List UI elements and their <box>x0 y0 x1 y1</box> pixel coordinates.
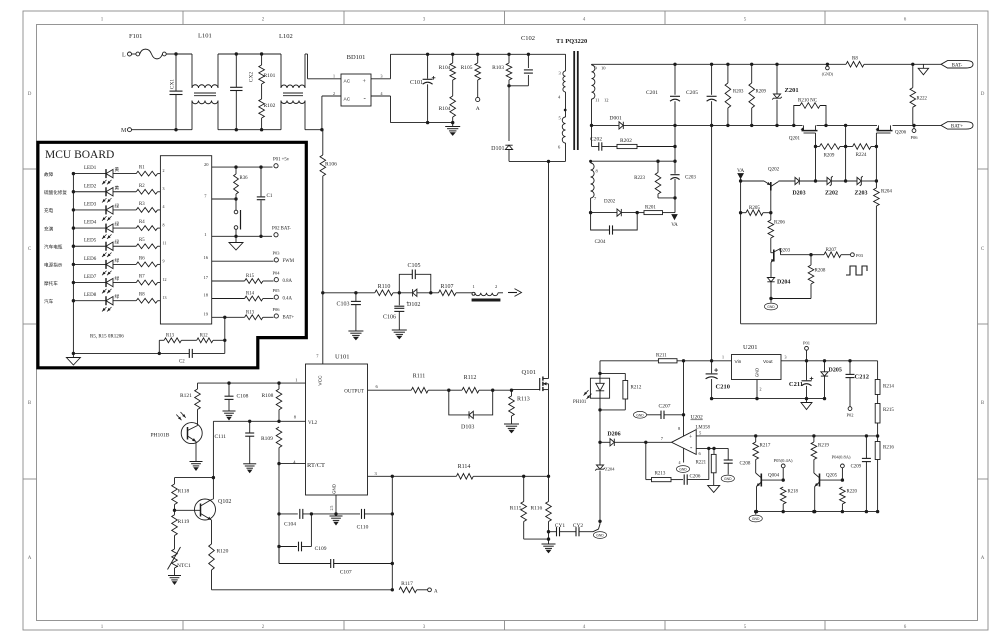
resistor R214 <box>875 361 894 404</box>
svg-text:3: 3 <box>163 186 165 191</box>
svg-text:C204: C204 <box>595 240 606 245</box>
resistor R204 <box>874 188 893 324</box>
resistor R207 <box>811 248 850 258</box>
resistor R223 <box>634 161 661 198</box>
svg-text:R217: R217 <box>760 444 771 449</box>
svg-text:D202: D202 <box>604 200 616 205</box>
diode D102 <box>407 289 439 308</box>
capacitor C210 <box>706 361 730 399</box>
resistor R208 <box>808 255 826 299</box>
resistor R4 <box>136 220 164 230</box>
svg-text:2: 2 <box>760 387 762 392</box>
resistor R205 <box>739 206 773 216</box>
svg-text:R5, R15 0R1206: R5, R15 0R1206 <box>90 335 124 340</box>
resistor R112 <box>462 375 513 393</box>
svg-text:D102: D102 <box>407 302 420 308</box>
resistor R201 <box>637 206 675 215</box>
wire DC+ top rail <box>391 53 566 56</box>
svg-text:R219: R219 <box>818 444 829 449</box>
svg-text:A: A <box>434 589 438 594</box>
ground oval comparator rail <box>749 512 762 522</box>
svg-text:P03: P03 <box>856 253 864 258</box>
svg-text:Z203: Z203 <box>854 191 867 197</box>
led LED6 <box>44 257 136 275</box>
mcu pin1 row <box>204 232 272 237</box>
svg-text:PH101B: PH101B <box>151 433 170 439</box>
transistor Q202 <box>739 168 795 213</box>
wire D204 to R208 <box>771 298 811 300</box>
svg-text:GND: GND <box>755 368 760 377</box>
svg-text:R114: R114 <box>458 464 471 470</box>
zener Z201 <box>772 64 798 125</box>
capacitor CY2 <box>560 521 601 536</box>
svg-text:汽车电瓶: 汽车电瓶 <box>44 243 63 250</box>
resistor R8 <box>136 293 166 303</box>
ground under PH101B <box>190 462 203 471</box>
svg-text:OUTPUT: OUTPUT <box>344 389 364 394</box>
inductor L102 <box>279 33 305 130</box>
svg-text:GND: GND <box>636 413 644 417</box>
svg-text:1: 1 <box>295 377 297 382</box>
wire R13 to C2 row <box>158 340 161 355</box>
ground under C106 <box>392 330 407 339</box>
resistor R118 <box>172 484 190 515</box>
resistor R113 <box>509 390 530 424</box>
svg-text:LED2: LED2 <box>84 184 97 189</box>
svg-text:A: A <box>28 556 32 561</box>
wire gate dividers verticals <box>816 125 877 188</box>
wire VL2 row <box>212 420 306 480</box>
svg-text:CY2: CY2 <box>573 523 584 529</box>
svg-text:+: + <box>406 301 409 306</box>
svg-text:摩托车: 摩托车 <box>44 280 58 287</box>
ground under U101 gnd <box>330 516 343 525</box>
svg-text:绿: 绿 <box>115 221 120 227</box>
zener Z204 <box>595 442 615 523</box>
inductor L101 <box>192 33 218 130</box>
zener Z202 <box>825 176 857 196</box>
svg-text:Vout: Vout <box>763 359 773 365</box>
svg-text:3: 3 <box>381 74 383 79</box>
svg-text:19: 19 <box>204 311 209 316</box>
svg-text:U202: U202 <box>691 415 703 421</box>
svg-text:R12: R12 <box>200 334 209 339</box>
terminal P01 +5v <box>273 158 290 168</box>
svg-text:R211: R211 <box>656 354 667 359</box>
svg-text:电源指示: 电源指示 <box>44 262 63 269</box>
wire C205 column down to U201 Vin <box>711 125 713 360</box>
wire pin19 node <box>223 316 226 342</box>
led LED2 <box>44 184 136 202</box>
wire Q203 collector row <box>781 253 813 256</box>
svg-text:1: 1 <box>473 284 475 289</box>
resistor R202 <box>617 138 677 149</box>
resistor R215 <box>875 404 894 438</box>
ground under D204 <box>764 299 777 310</box>
svg-text:P06: P06 <box>910 135 918 140</box>
svg-text:U101: U101 <box>335 354 349 361</box>
switch SW <box>234 199 240 238</box>
mcu pin20 row <box>204 162 273 169</box>
svg-text:P02 BAT-: P02 BAT- <box>272 227 291 232</box>
wire R115 bottom <box>524 538 549 540</box>
resistor R101 <box>259 54 276 99</box>
current transformer winding <box>472 284 503 296</box>
svg-text:R215: R215 <box>883 408 894 413</box>
terminal L <box>122 52 132 59</box>
resistor R217 <box>753 436 771 473</box>
svg-text:0.8A: 0.8A <box>283 279 293 284</box>
svg-text:R6: R6 <box>139 256 145 261</box>
svg-text:BAT-: BAT- <box>952 64 963 69</box>
svg-text:C206: C206 <box>690 475 701 480</box>
svg-text:C103: C103 <box>336 302 349 308</box>
svg-text:R121: R121 <box>180 393 192 399</box>
capacitor C101 <box>410 54 435 122</box>
svg-text:Vin: Vin <box>735 359 742 365</box>
capacitor C209 <box>851 436 871 512</box>
svg-text:C101: C101 <box>410 80 423 86</box>
diode D202 <box>589 200 639 217</box>
svg-text:R117: R117 <box>401 581 413 587</box>
svg-text:11: 11 <box>163 240 167 245</box>
svg-text:GND: GND <box>332 483 337 494</box>
ground arrow mcu <box>229 236 243 250</box>
svg-text:A: A <box>981 556 985 561</box>
terminal P06 <box>910 125 918 140</box>
resistor R102 <box>259 99 276 130</box>
svg-text:R216: R216 <box>883 446 894 451</box>
mcu pin7 row <box>204 194 236 200</box>
resistor R103 <box>492 54 512 87</box>
svg-text:D101: D101 <box>491 146 504 152</box>
resistor R104 upper <box>439 54 456 96</box>
wire drain column <box>548 161 550 378</box>
svg-text:R5: R5 <box>139 238 145 243</box>
svg-text:AC: AC <box>344 79 351 85</box>
resistor R222 <box>910 64 927 125</box>
svg-text:R2: R2 <box>139 184 145 189</box>
svg-text:C209: C209 <box>851 465 862 470</box>
svg-text:R111: R111 <box>413 374 426 380</box>
svg-text:LED1: LED1 <box>84 166 97 171</box>
capacitor C208 <box>721 448 751 482</box>
U101 gnd pin stub <box>334 495 337 516</box>
svg-text:R4: R4 <box>139 220 145 225</box>
diode D203 <box>792 177 827 196</box>
svg-text:R7: R7 <box>139 275 145 280</box>
wire R117 long row <box>212 588 394 591</box>
svg-text:P05(0.4A): P05(0.4A) <box>774 458 793 463</box>
wire top rail L101 to L102 <box>218 52 281 55</box>
svg-text:A: A <box>476 106 480 112</box>
svg-text:R108: R108 <box>262 393 274 399</box>
svg-text:BD101: BD101 <box>347 54 366 61</box>
ground arrow R221 <box>708 485 720 492</box>
svg-text:17: 17 <box>204 275 209 280</box>
svg-text:LM358: LM358 <box>696 426 711 431</box>
svg-text:Z201: Z201 <box>785 87 799 94</box>
wire RT/CT row <box>277 462 305 564</box>
resistor R121 <box>180 383 200 424</box>
capacitor C205 <box>686 64 717 125</box>
svg-text:M: M <box>121 128 127 134</box>
svg-text:C210: C210 <box>716 384 730 391</box>
capacitor CY1 <box>549 523 566 536</box>
svg-text:R224: R224 <box>856 153 867 158</box>
svg-text:D: D <box>28 92 32 97</box>
svg-text:黄: 黄 <box>115 166 120 173</box>
wire L102 to BD101 pin1 <box>305 54 341 79</box>
wire U201 ground row <box>710 380 826 401</box>
svg-text:GND: GND <box>752 517 760 521</box>
wire output pin3 row <box>368 475 551 478</box>
svg-text:GND: GND <box>767 305 775 309</box>
resistor R2 <box>136 184 164 194</box>
svg-text:Q004: Q004 <box>768 474 780 479</box>
svg-text:R106: R106 <box>325 162 337 168</box>
led LED1 <box>44 166 136 184</box>
svg-text:C1: C1 <box>267 194 273 199</box>
svg-text:C203: C203 <box>685 176 696 181</box>
resistor R221 <box>696 448 717 485</box>
MCU BOARD box <box>38 142 306 367</box>
terminal P05 <box>774 458 793 480</box>
optocoupler PH101 LED <box>573 361 610 412</box>
capacitor C103 <box>336 293 360 331</box>
svg-text:(GND): (GND) <box>822 72 834 77</box>
mcu pin17 row <box>204 271 293 285</box>
svg-text:C207: C207 <box>659 404 671 410</box>
svg-text:R202: R202 <box>620 138 632 144</box>
svg-text:R223: R223 <box>634 176 645 181</box>
terminal A under R105 <box>476 97 480 112</box>
mosfet Q101 <box>512 369 549 476</box>
resistor R3 <box>136 202 164 212</box>
svg-text:P04(0.8A): P04(0.8A) <box>832 455 851 460</box>
resistor R211 <box>656 354 732 363</box>
resistor R13 bottom <box>159 334 181 343</box>
svg-text:C211: C211 <box>789 381 803 388</box>
diode D206 <box>600 432 646 446</box>
earth arrow near BAT- <box>918 64 928 75</box>
ground under R104 <box>445 123 460 136</box>
wire fuse to CX1 node <box>166 52 192 55</box>
svg-text:LED7: LED7 <box>84 275 97 280</box>
wire secondary output rail <box>673 124 941 127</box>
svg-text:C107: C107 <box>340 570 352 576</box>
capacitor C203 <box>670 125 696 212</box>
regulator U201 <box>722 344 787 392</box>
resistor R213 feedback <box>646 442 683 481</box>
capacitor C206 <box>684 448 709 484</box>
svg-text:Z204: Z204 <box>605 467 615 472</box>
net VA arrow top <box>737 168 744 324</box>
wire opamp minus input row <box>696 447 728 450</box>
svg-text:C106: C106 <box>383 315 396 321</box>
wire opamp plus input to sense rail <box>696 434 877 437</box>
wire secondary positive rail <box>592 63 942 66</box>
svg-text:R13: R13 <box>246 310 255 315</box>
svg-text:R119: R119 <box>178 519 190 525</box>
capacitor C202 <box>590 125 617 150</box>
capacitor C207 <box>633 404 685 420</box>
svg-text:Q206: Q206 <box>895 131 907 136</box>
svg-text:R13: R13 <box>166 334 175 339</box>
resistor R212 <box>600 373 642 410</box>
mcu pin18 row <box>204 288 293 302</box>
svg-text:LED6: LED6 <box>84 257 97 262</box>
resistor R8 <box>846 57 864 68</box>
ground under R116 <box>542 544 556 553</box>
terminal P02 BAT- <box>272 227 291 237</box>
resistor R203 <box>725 64 744 125</box>
mosfet Q206 <box>876 125 906 146</box>
svg-text:12: 12 <box>163 277 167 282</box>
square wave symbol <box>846 266 867 275</box>
ground arrow U201 <box>801 399 812 410</box>
diode D103 <box>449 390 493 430</box>
svg-text:R209: R209 <box>824 154 835 159</box>
svg-text:R208: R208 <box>815 269 826 274</box>
wire C203 bottom row <box>658 197 675 199</box>
capacitor C106 <box>383 293 409 330</box>
resistor R108 <box>262 383 282 421</box>
mosfet Q201 <box>789 125 818 146</box>
terminal P03 <box>851 253 864 258</box>
resistor R116 <box>531 476 552 544</box>
svg-text:D205: D205 <box>829 368 842 374</box>
capacitor C211 <box>789 361 813 399</box>
capacitor C107 <box>279 547 394 576</box>
svg-text:R109: R109 <box>261 436 273 442</box>
svg-text:D204: D204 <box>777 280 790 286</box>
resistor R1 <box>136 166 164 176</box>
svg-text:20: 20 <box>204 162 209 167</box>
led LED8 <box>44 293 136 311</box>
fuse F101 <box>129 33 166 59</box>
diode D204 <box>767 278 790 301</box>
capacitor C110 <box>336 509 394 531</box>
gate drive arrow <box>508 289 522 297</box>
resistor R7 <box>136 275 166 285</box>
svg-text:U201: U201 <box>743 344 757 351</box>
resistor R36 <box>234 167 248 201</box>
svg-text:VCC: VCC <box>318 375 324 386</box>
capacitor C108 <box>225 383 249 411</box>
wire VA loop bottom <box>741 323 877 325</box>
svg-text:NTC1: NTC1 <box>177 563 191 569</box>
svg-text:PH101: PH101 <box>573 400 587 405</box>
wire pin3 column <box>391 476 393 590</box>
svg-text:R104: R104 <box>439 65 451 71</box>
svg-text:R103: R103 <box>492 65 504 71</box>
svg-text:R15: R15 <box>246 274 255 279</box>
svg-text:D: D <box>981 92 985 97</box>
phototransistor PH101B <box>151 412 203 462</box>
resistor R114 <box>456 464 473 479</box>
svg-text:F101: F101 <box>129 33 142 40</box>
svg-text:P03: P03 <box>273 251 281 256</box>
ground arrow mcu bus <box>66 353 80 365</box>
svg-text:VL2: VL2 <box>308 421 318 426</box>
svg-text:绿: 绿 <box>115 275 120 281</box>
wire primary sense row <box>323 291 375 294</box>
terminal P01 <box>803 341 810 361</box>
wire BD101 pin2 down to bottom rail <box>322 96 341 130</box>
svg-text:LED8: LED8 <box>84 293 97 298</box>
capacitor CX1 <box>170 54 183 130</box>
svg-text:R8: R8 <box>139 293 145 298</box>
resistor R107 <box>439 284 473 296</box>
thermistor NTC1 <box>168 547 192 576</box>
svg-text:充满: 充满 <box>44 225 54 232</box>
terminal GND on positive rail <box>822 64 834 76</box>
transistor Q204 <box>756 473 785 512</box>
resistor R206 <box>768 213 785 253</box>
svg-text:R118: R118 <box>178 489 190 495</box>
svg-text:CX2: CX2 <box>249 72 255 83</box>
wire Q102 collector branch <box>175 478 214 499</box>
svg-text:P06: P06 <box>273 307 281 312</box>
svg-text:C108: C108 <box>237 394 249 400</box>
capacitor C204 <box>591 213 638 245</box>
svg-text:MCU BOARD: MCU BOARD <box>45 149 114 161</box>
svg-text:R8: R8 <box>852 57 858 62</box>
transistor Q205 <box>814 473 844 512</box>
resistor R210 NC <box>794 99 826 126</box>
wire aux rail <box>589 160 677 163</box>
svg-text:绿: 绿 <box>115 293 120 299</box>
opamp pin4 ground <box>676 448 689 472</box>
svg-text:P02: P02 <box>846 413 853 418</box>
svg-text:充电: 充电 <box>44 207 54 214</box>
svg-text:R116: R116 <box>531 506 543 512</box>
mcu pin19 row <box>204 307 295 321</box>
resistor R12 bottom <box>181 334 224 343</box>
svg-text:R212: R212 <box>631 386 642 391</box>
wire comparator ground rail <box>754 510 879 513</box>
svg-text:GND: GND <box>724 477 732 481</box>
svg-text:黄: 黄 <box>115 184 120 191</box>
capacitor C105 <box>399 263 431 293</box>
svg-text:R105: R105 <box>461 65 473 71</box>
svg-text:故障: 故障 <box>44 171 54 178</box>
terminal flag BAT- <box>941 61 973 69</box>
resistor R120 <box>209 544 229 590</box>
resistor R224 <box>853 144 879 158</box>
wire BD101 pin4 to DC- rail <box>371 96 454 124</box>
capacitor C104 <box>279 509 336 528</box>
svg-text:BAT+: BAT+ <box>951 125 963 130</box>
ground under NTC1 <box>168 576 181 585</box>
wire opto to D206 node <box>598 410 601 444</box>
svg-text:2: 2 <box>495 284 497 289</box>
resistor R218 <box>780 487 798 512</box>
note resistors 0R <box>90 335 124 340</box>
svg-text:Q102: Q102 <box>218 499 231 505</box>
svg-text:2: 2 <box>163 168 165 173</box>
terminal P04 <box>832 455 851 481</box>
svg-text:11: 11 <box>595 98 599 103</box>
svg-text:C111: C111 <box>214 434 226 440</box>
terminal P02 <box>846 407 853 418</box>
svg-text:C201: C201 <box>646 90 658 96</box>
capacitor C212 <box>846 361 869 407</box>
capacitor CX2 <box>230 54 254 130</box>
svg-text:C105: C105 <box>407 263 420 269</box>
svg-text:D203: D203 <box>792 191 805 197</box>
